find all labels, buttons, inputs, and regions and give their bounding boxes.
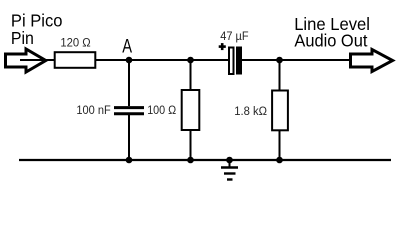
junction R3 rail [276, 157, 283, 164]
resistor R3 1.8 kohm [272, 91, 288, 131]
svg-text:Pin: Pin [11, 28, 34, 48]
resistor R2 100 ohm [182, 90, 200, 130]
ground rail wire [19, 159, 391, 161]
port arrow input (Pi Pico Pin) [6, 49, 46, 72]
wire C2 to output arrow [242, 59, 350, 61]
svg-text:1.8 kΩ: 1.8 kΩ [234, 104, 267, 118]
wire top to R2 [190, 60, 192, 89]
svg-text:47 µF: 47 µF [220, 29, 248, 43]
wire node A down to C1 [128, 60, 130, 106]
junction ground [226, 157, 233, 164]
svg-text:100 nF: 100 nF [76, 103, 110, 117]
wire C1 to ground rail [128, 115, 130, 160]
ground symbol [221, 160, 238, 180]
capacitor C1 100 nF top plate [114, 106, 144, 109]
wire R3 to ground rail [279, 131, 281, 160]
resistor R1 120 ohm [55, 52, 96, 68]
svg-text:A: A [122, 35, 132, 57]
svg-text:Audio Out: Audio Out [294, 30, 367, 50]
junction R3 top [276, 57, 283, 64]
junction C1 rail [126, 157, 133, 164]
svg-text:120 Ω: 120 Ω [60, 36, 90, 50]
wire top to R3 [279, 60, 281, 90]
capacitor C1 100 nF bottom plate [114, 112, 144, 115]
capacitor C2 47 uF negative plate [236, 47, 242, 75]
capacitor C2 47 uF positive plate [229, 48, 234, 75]
junction R2 rail [187, 157, 194, 164]
polarity plus sign [219, 45, 226, 48]
node A junction [126, 57, 133, 64]
wire R2 to ground rail [190, 131, 192, 160]
port arrow output (Line Level Audio Out) [351, 50, 393, 72]
svg-text:100 Ω: 100 Ω [147, 103, 176, 117]
wire R1 to node A to C2 [96, 59, 228, 61]
wire input (through arrow to R1) [20, 59, 54, 61]
junction R2 top [187, 57, 194, 64]
